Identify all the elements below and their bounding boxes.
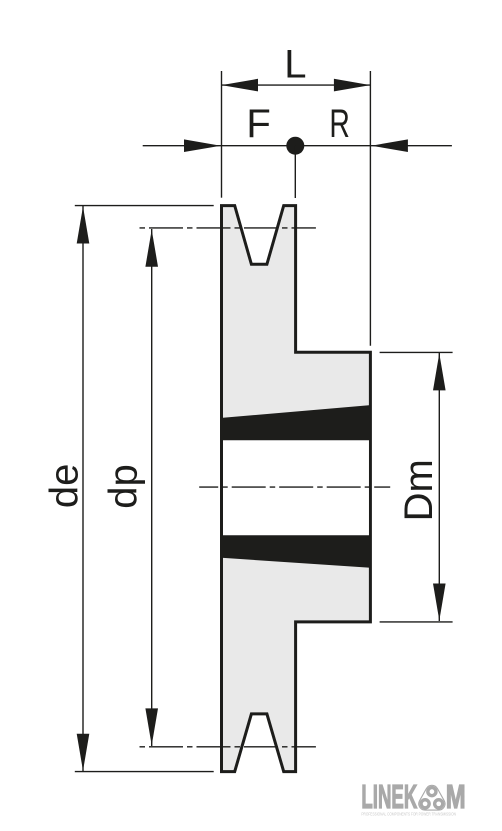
extension line L left [221,71,223,198]
arrowhead R (points left) [371,139,408,152]
arrowhead dp bottom [145,708,158,745]
extension line de top [75,205,214,207]
dimension line dp [151,229,153,746]
arrowhead F (points right) [184,139,221,152]
svg-text:M: M [446,778,466,815]
F R dimension line [143,145,452,147]
dimension line L [222,84,371,86]
arrowhead Dm bottom [433,584,446,621]
arrowhead de top [77,207,90,244]
taper bushing wedge lower [222,535,371,568]
extension line de bottom [75,771,214,773]
svg-text:R: R [329,102,350,146]
arrowhead Dm top [433,353,446,390]
logo symbol roller bottom-right [435,800,443,808]
logo symbol roller bottom-left [421,800,429,808]
extension line Dm top [380,351,453,353]
extension line L right [369,71,371,346]
bore centerline (dash-dot) [199,486,390,488]
arrowhead L right [334,79,371,92]
svg-text:LINEK: LINEK [361,778,417,815]
dimension line Dm [438,353,440,621]
svg-text:PROFESSIONAL COMPONENTS FOR PO: PROFESSIONAL COMPONENTS FOR POWER TRANSM… [361,812,456,817]
arrowhead L left [222,79,259,92]
leader line from dot to pulley face [294,146,296,198]
pitch line dp bottom (dash-dot) [140,746,316,748]
logo symbol rounded triangle [419,785,445,810]
arrowhead dp top [145,230,158,267]
arrowhead de bottom [77,734,90,771]
extension line Dm bottom [380,621,453,623]
taper bushing wedge upper [222,405,371,440]
reference dot node [286,137,304,155]
bore (white) [223,438,369,537]
logo symbol roller top [428,788,436,796]
dimension line de [82,206,84,772]
svg-text:Dm: Dm [397,459,441,521]
svg-text:L: L [284,42,306,86]
svg-text:dp: dp [101,464,145,509]
pitch line dp top (dash-dot) [140,227,316,229]
svg-text:F: F [246,102,270,146]
svg-text:de: de [42,464,86,509]
pulley body cross-section [222,206,371,772]
